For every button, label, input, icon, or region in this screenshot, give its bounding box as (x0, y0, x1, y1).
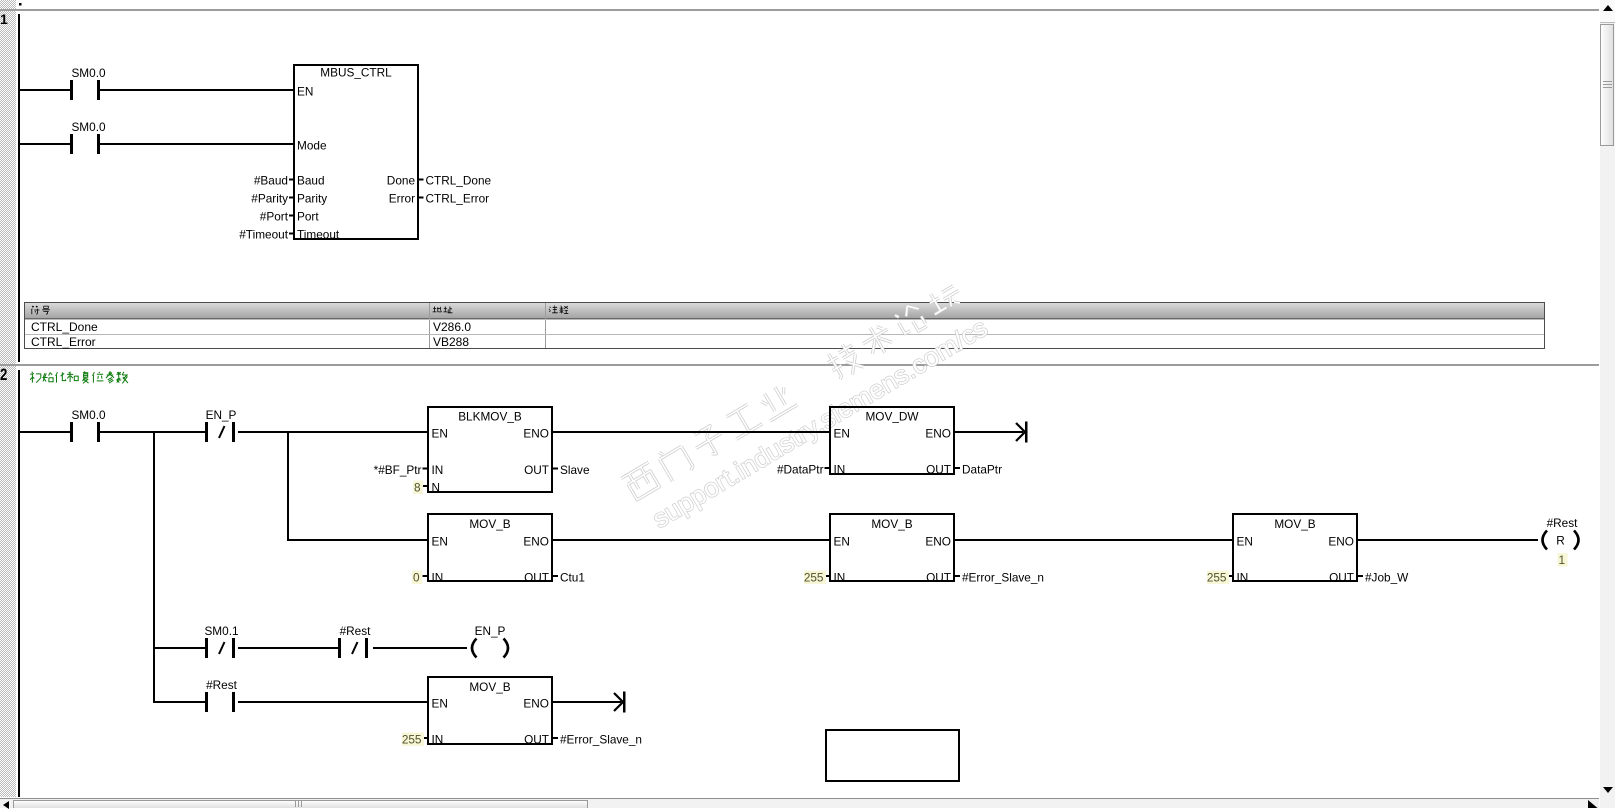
svg-text:#Error_Slave_n: #Error_Slave_n (962, 571, 1044, 585)
svg-text:R: R (1556, 534, 1565, 548)
svg-text:Timeout: Timeout (297, 228, 340, 242)
svg-text:#Port: #Port (260, 210, 289, 224)
svg-text:Baud: Baud (297, 174, 325, 188)
svg-text:#DataPtr: #DataPtr (777, 463, 824, 477)
svg-text:Ctu1: Ctu1 (560, 571, 585, 585)
svg-text:IN: IN (834, 463, 846, 477)
svg-text:MOV_DW: MOV_DW (865, 410, 919, 424)
svg-text:MOV_B: MOV_B (469, 517, 510, 531)
svg-text:OUT: OUT (926, 571, 951, 585)
svg-text:EN: EN (1237, 535, 1253, 549)
svg-text:Mode: Mode (297, 139, 327, 153)
svg-text:IN: IN (432, 571, 444, 585)
svg-text:MOV_B: MOV_B (469, 680, 510, 694)
svg-text:SM0.0: SM0.0 (71, 66, 106, 80)
svg-text:#Parity: #Parity (251, 192, 288, 206)
svg-text:IN: IN (432, 463, 444, 477)
svg-text:Slave: Slave (560, 463, 590, 477)
svg-text:0: 0 (413, 571, 420, 585)
svg-text:MOV_B: MOV_B (871, 517, 912, 531)
svg-text:EN: EN (297, 85, 313, 99)
svg-text:255: 255 (804, 571, 824, 585)
svg-text:255: 255 (402, 733, 422, 747)
svg-text:EN: EN (432, 697, 448, 711)
svg-text:ENO: ENO (925, 535, 951, 549)
svg-text:OUT: OUT (926, 463, 951, 477)
svg-text:IN: IN (1237, 571, 1249, 585)
svg-text:255: 255 (1207, 571, 1227, 585)
svg-text:CTRL_Error: CTRL_Error (426, 192, 490, 206)
svg-text:1: 1 (1558, 553, 1565, 567)
svg-text:SM0.0: SM0.0 (71, 120, 106, 134)
svg-text:8: 8 (414, 481, 421, 495)
svg-text:Port: Port (297, 210, 319, 224)
svg-text:ENO: ENO (523, 427, 549, 441)
svg-text:Done: Done (387, 174, 416, 188)
svg-text:ENO: ENO (1328, 535, 1354, 549)
svg-text:N: N (432, 481, 441, 495)
svg-text:#Error_Slave_n: #Error_Slave_n (560, 733, 642, 747)
svg-text:support.industry.siemens.com/c: support.industry.siemens.com/cs (647, 312, 992, 534)
svg-text:ENO: ENO (523, 697, 549, 711)
svg-text:BLKMOV_B: BLKMOV_B (458, 410, 522, 424)
svg-text:OUT: OUT (524, 463, 549, 477)
svg-text:ENO: ENO (523, 535, 549, 549)
svg-text:SM0.1: SM0.1 (204, 624, 238, 638)
svg-text:SM0.0: SM0.0 (71, 408, 106, 422)
svg-text:#Rest: #Rest (340, 624, 372, 638)
svg-text:EN: EN (834, 535, 850, 549)
svg-text:EN_P: EN_P (475, 624, 506, 638)
svg-text:EN: EN (432, 427, 448, 441)
svg-text:Parity: Parity (297, 192, 327, 206)
svg-text:IN: IN (432, 733, 444, 747)
svg-text:OUT: OUT (1329, 571, 1354, 585)
svg-text:MOV_B: MOV_B (1274, 517, 1315, 531)
svg-text:*#BF_Ptr: *#BF_Ptr (374, 463, 422, 477)
svg-text:#Baud: #Baud (254, 174, 288, 188)
svg-text:#Timeout: #Timeout (239, 228, 288, 242)
svg-text:EN_P: EN_P (206, 408, 237, 422)
svg-text:#Rest: #Rest (206, 678, 238, 692)
svg-text:#Job_W: #Job_W (1365, 571, 1409, 585)
svg-text:Error: Error (389, 192, 415, 206)
svg-text:EN: EN (834, 427, 850, 441)
svg-text:ENO: ENO (925, 427, 951, 441)
svg-text:CTRL_Done: CTRL_Done (426, 174, 492, 188)
svg-text:MBUS_CTRL: MBUS_CTRL (320, 66, 392, 80)
svg-text:DataPtr: DataPtr (962, 463, 1002, 477)
svg-text:IN: IN (834, 571, 846, 585)
svg-text:OUT: OUT (524, 733, 549, 747)
svg-text:EN: EN (432, 535, 448, 549)
svg-text:OUT: OUT (524, 571, 549, 585)
svg-text:#Rest: #Rest (1547, 516, 1579, 530)
